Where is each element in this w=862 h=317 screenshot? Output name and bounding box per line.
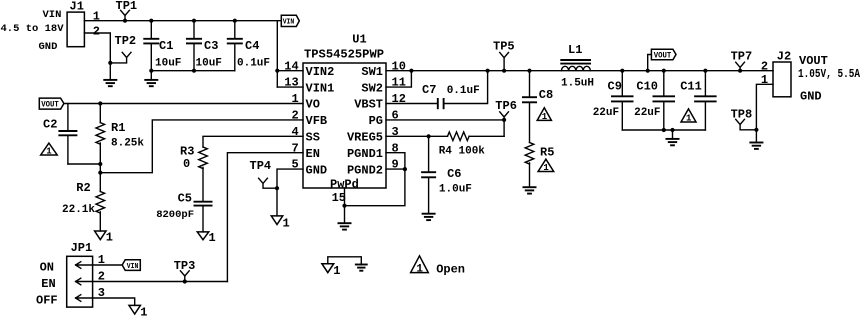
- net flag VOUT left: [39, 98, 64, 109]
- wire J1 pin2 down to TP2 node: [84, 33, 110, 63]
- svg-text:C9: C9: [608, 80, 622, 94]
- svg-text:4: 4: [291, 125, 298, 139]
- junction C8 tap: [527, 69, 531, 73]
- resistor R1: [96, 104, 144, 173]
- wire PG to TP6: [386, 119, 504, 121]
- wire VO rail: [64, 103, 303, 105]
- junction SW tie: [409, 69, 413, 73]
- svg-text:1: 1: [761, 73, 768, 87]
- junction C1 top: [149, 19, 153, 23]
- legend ground symbol: [355, 265, 368, 271]
- svg-text:Open: Open: [436, 262, 465, 276]
- svg-text:SW1: SW1: [361, 65, 383, 79]
- ground triangle net1 below C5: [197, 231, 215, 245]
- test point TP3: [174, 259, 196, 282]
- wire output cap bottom rail: [622, 129, 705, 131]
- test point TP8: [731, 107, 757, 129]
- svg-text:GND: GND: [800, 90, 822, 104]
- svg-text:4.5 to 18V: 4.5 to 18V: [1, 23, 65, 35]
- svg-text:1: 1: [106, 231, 113, 245]
- ground at TP2 node: [103, 63, 117, 86]
- svg-text:TP1: TP1: [116, 0, 138, 13]
- resistor R5: [525, 143, 554, 188]
- svg-text:R4 100k: R4 100k: [439, 146, 486, 158]
- capacitor C2: [43, 104, 100, 165]
- svg-text:1: 1: [283, 217, 290, 231]
- junction C6 tap: [427, 134, 431, 138]
- svg-text:J1: J1: [70, 0, 84, 14]
- svg-text:VIN1: VIN1: [306, 81, 335, 95]
- wire SW main rail: [411, 70, 773, 72]
- wire SS to R3: [203, 136, 303, 147]
- svg-text:U1: U1: [352, 33, 366, 47]
- net flag VIN top: [281, 15, 299, 26]
- jumper JP1: [67, 241, 93, 307]
- junction TP3: [183, 279, 187, 283]
- ground below pin15: [338, 206, 352, 230]
- ground below output rail: [666, 130, 680, 145]
- junction TP1 on VIN rail: [123, 19, 127, 23]
- svg-text:VFB: VFB: [306, 114, 328, 128]
- ground below R5: [523, 187, 537, 193]
- wire JP1 pin2 to EN: [93, 281, 228, 283]
- svg-text:22uF: 22uF: [634, 107, 660, 119]
- svg-text:1.05V, 5.5A: 1.05V, 5.5A: [798, 67, 861, 81]
- legend wire: [328, 257, 362, 265]
- test point TP4: [250, 159, 278, 188]
- wire TP4 node down: [276, 188, 278, 216]
- junction C4 top: [233, 19, 237, 23]
- svg-text:C4: C4: [245, 39, 259, 53]
- capacitor C5: [156, 192, 212, 232]
- junction C1 bottom: [149, 69, 153, 73]
- wire U1 pin13 stub: [277, 86, 303, 88]
- wire JP1 pin1 to VIN flag: [93, 264, 123, 266]
- svg-text:1: 1: [333, 264, 340, 278]
- ground below C6: [422, 214, 436, 220]
- svg-text:13: 13: [284, 76, 298, 90]
- capacitor C7: [422, 83, 480, 109]
- svg-text:22uF: 22uF: [593, 107, 619, 119]
- svg-text:5: 5: [291, 158, 298, 172]
- svg-text:22.1k: 22.1k: [62, 204, 95, 216]
- IC U1 TPS54525PWP: [303, 33, 386, 189]
- open marker for C8: [537, 108, 551, 122]
- test point TP5: [493, 39, 515, 70]
- svg-text:EN: EN: [306, 147, 320, 161]
- svg-text:8200pF: 8200pF: [156, 209, 194, 221]
- wire VFB feedback: [100, 120, 303, 173]
- svg-text:SS: SS: [306, 131, 320, 145]
- svg-text:1: 1: [543, 163, 549, 173]
- capacitor C3: [186, 21, 222, 71]
- net flag VOUT right: [648, 49, 676, 70]
- ground triangle net1 below TP4 node: [271, 216, 289, 231]
- svg-text:C10: C10: [636, 80, 658, 94]
- svg-text:1: 1: [209, 231, 216, 245]
- svg-text:J2: J2: [777, 49, 791, 63]
- wire EN to TP3: [227, 153, 303, 282]
- wire input cap bottom rail: [151, 70, 235, 72]
- wire U1 pin15 stub: [344, 188, 346, 206]
- net flag VIN at JP1: [122, 260, 140, 271]
- capacitor C8: [522, 71, 553, 143]
- resistor R3: [180, 145, 207, 202]
- capacitor C4: [227, 21, 270, 71]
- junction output ground stem: [670, 128, 674, 132]
- legend open triangle: [411, 256, 429, 275]
- svg-text:10uF: 10uF: [196, 57, 222, 69]
- wire VIN drop to U1 pins 14 13: [276, 21, 278, 87]
- test point TP2: [110, 34, 136, 63]
- test point TP7: [731, 49, 753, 70]
- legend ground triangle net1: [322, 264, 341, 278]
- junction C7 riser: [486, 69, 490, 73]
- wire C7 to SW rail: [444, 71, 488, 104]
- svg-text:2: 2: [93, 24, 100, 38]
- svg-text:VIN: VIN: [127, 263, 139, 271]
- resistor R2: [62, 173, 105, 231]
- svg-text:C11: C11: [680, 80, 702, 94]
- wire SW1 stub: [386, 70, 411, 72]
- svg-text:2: 2: [761, 59, 768, 73]
- svg-text:VOUT: VOUT: [799, 54, 828, 68]
- svg-text:TP6: TP6: [495, 99, 517, 113]
- junction TP6: [502, 118, 506, 122]
- junction VFB tap: [98, 171, 102, 175]
- svg-text:VIN: VIN: [283, 19, 295, 27]
- ground triangle net1 below R2: [95, 231, 113, 245]
- svg-text:TPS54525PWP: TPS54525PWP: [304, 48, 384, 62]
- ground triangle net1 below JP1 pin3: [129, 305, 147, 317]
- svg-text:TP4: TP4: [250, 159, 272, 173]
- resistor R4: [439, 132, 504, 158]
- junction C11 top: [703, 69, 707, 73]
- svg-text:VOUT: VOUT: [41, 101, 59, 110]
- svg-text:C2: C2: [43, 117, 57, 131]
- svg-text:L1: L1: [568, 43, 582, 57]
- svg-text:10uF: 10uF: [155, 57, 181, 69]
- svg-text:C6: C6: [447, 167, 461, 181]
- capacitor C1: [143, 21, 181, 71]
- wire VREG5 to R4: [386, 135, 448, 137]
- svg-text:R5: R5: [540, 145, 554, 159]
- svg-text:PGND2: PGND2: [347, 163, 383, 177]
- junction C10 bottom: [662, 128, 666, 132]
- svg-text:1: 1: [46, 147, 52, 157]
- junction R1 top: [98, 101, 102, 105]
- test point TP6: [495, 99, 517, 120]
- junction pin15 node: [342, 204, 346, 208]
- svg-text:EN: EN: [41, 277, 55, 291]
- junction C9 top: [620, 69, 624, 73]
- open marker for C11: [681, 109, 696, 124]
- svg-text:1: 1: [416, 263, 423, 275]
- svg-text:GND: GND: [306, 163, 328, 177]
- svg-text:1.5uH: 1.5uH: [561, 77, 594, 89]
- open marker for C2: [41, 143, 58, 157]
- capacitor C6: [421, 136, 472, 213]
- inductor L1: [560, 43, 594, 89]
- junction TP5: [502, 69, 506, 73]
- ground below C1: [144, 71, 158, 87]
- svg-text:OFF: OFF: [36, 293, 58, 307]
- svg-text:14: 14: [284, 59, 298, 73]
- svg-text:VBST: VBST: [354, 98, 383, 112]
- junction PGND2 tap: [403, 167, 407, 171]
- junction C2 tap: [98, 162, 102, 166]
- svg-text:R1: R1: [111, 121, 125, 135]
- svg-text:C8: C8: [539, 88, 553, 102]
- junction pin14 tap: [275, 69, 279, 73]
- svg-text:1: 1: [686, 114, 692, 124]
- junction C3 bottom: [192, 69, 196, 73]
- junction VOUT stem: [646, 69, 650, 73]
- svg-text:C7: C7: [422, 83, 436, 97]
- test point TP1: [116, 0, 138, 21]
- svg-text:0.1uF: 0.1uF: [237, 57, 270, 69]
- svg-text:VO: VO: [306, 98, 320, 112]
- junction TP4 node: [275, 186, 279, 190]
- capacitor C9: [593, 71, 634, 130]
- svg-text:0.1uF: 0.1uF: [447, 85, 480, 97]
- svg-text:C1: C1: [159, 39, 173, 53]
- svg-text:7: 7: [291, 141, 298, 155]
- capacitor C10: [634, 71, 675, 130]
- svg-text:TP2: TP2: [115, 34, 137, 48]
- wire U1 pin14 stub: [277, 70, 303, 72]
- svg-text:VIN: VIN: [43, 9, 62, 21]
- svg-text:8.25k: 8.25k: [111, 137, 144, 149]
- wire PGND2 stub: [386, 168, 405, 170]
- svg-text:VOUT: VOUT: [654, 52, 672, 61]
- wire PGND1 PGND2 to pin15 node: [345, 153, 405, 206]
- svg-text:SW2: SW2: [361, 81, 383, 95]
- svg-text:ON: ON: [40, 260, 54, 274]
- capacitor C11: [680, 71, 716, 130]
- wire GND pin to TP4 node: [277, 169, 303, 188]
- junction C10 top: [662, 69, 666, 73]
- junction C3 top: [192, 19, 196, 23]
- open marker for R5: [538, 159, 554, 173]
- svg-text:C3: C3: [204, 39, 218, 53]
- wire TP6 node down to R4: [503, 120, 505, 136]
- connector J2: [773, 49, 791, 97]
- wire J2 pin1 down: [756, 84, 773, 130]
- svg-text:JP1: JP1: [71, 241, 93, 255]
- svg-text:1: 1: [93, 10, 100, 24]
- svg-text:R2: R2: [76, 181, 90, 195]
- junction TP8 node: [754, 128, 758, 132]
- svg-text:TP8: TP8: [731, 107, 753, 121]
- svg-text:VIN2: VIN2: [306, 65, 335, 79]
- svg-text:1: 1: [291, 92, 298, 106]
- svg-text:TP7: TP7: [731, 49, 753, 63]
- junction TP2 node: [108, 61, 112, 65]
- svg-text:TP3: TP3: [174, 259, 196, 273]
- wire VBST to C7: [386, 103, 438, 105]
- svg-text:1: 1: [542, 112, 548, 122]
- svg-text:GND: GND: [39, 41, 58, 53]
- wire SW2 stub and tie: [386, 71, 411, 87]
- svg-text:0: 0: [183, 157, 190, 171]
- svg-text:PG: PG: [369, 114, 383, 128]
- svg-text:1: 1: [140, 305, 147, 317]
- connector J1: [67, 0, 84, 47]
- svg-text:2: 2: [291, 109, 298, 123]
- ground below J2 pin1: [749, 130, 763, 149]
- wire JP1 pin3 to ground: [93, 298, 135, 305]
- svg-text:VREG5: VREG5: [347, 131, 383, 145]
- svg-text:TP5: TP5: [493, 39, 515, 53]
- wire J1 pin1 to VIN rail: [84, 20, 281, 22]
- junction TP7: [738, 69, 742, 73]
- svg-text:C5: C5: [178, 192, 192, 206]
- svg-text:PGND1: PGND1: [347, 147, 383, 161]
- svg-text:1.0uF: 1.0uF: [439, 184, 472, 196]
